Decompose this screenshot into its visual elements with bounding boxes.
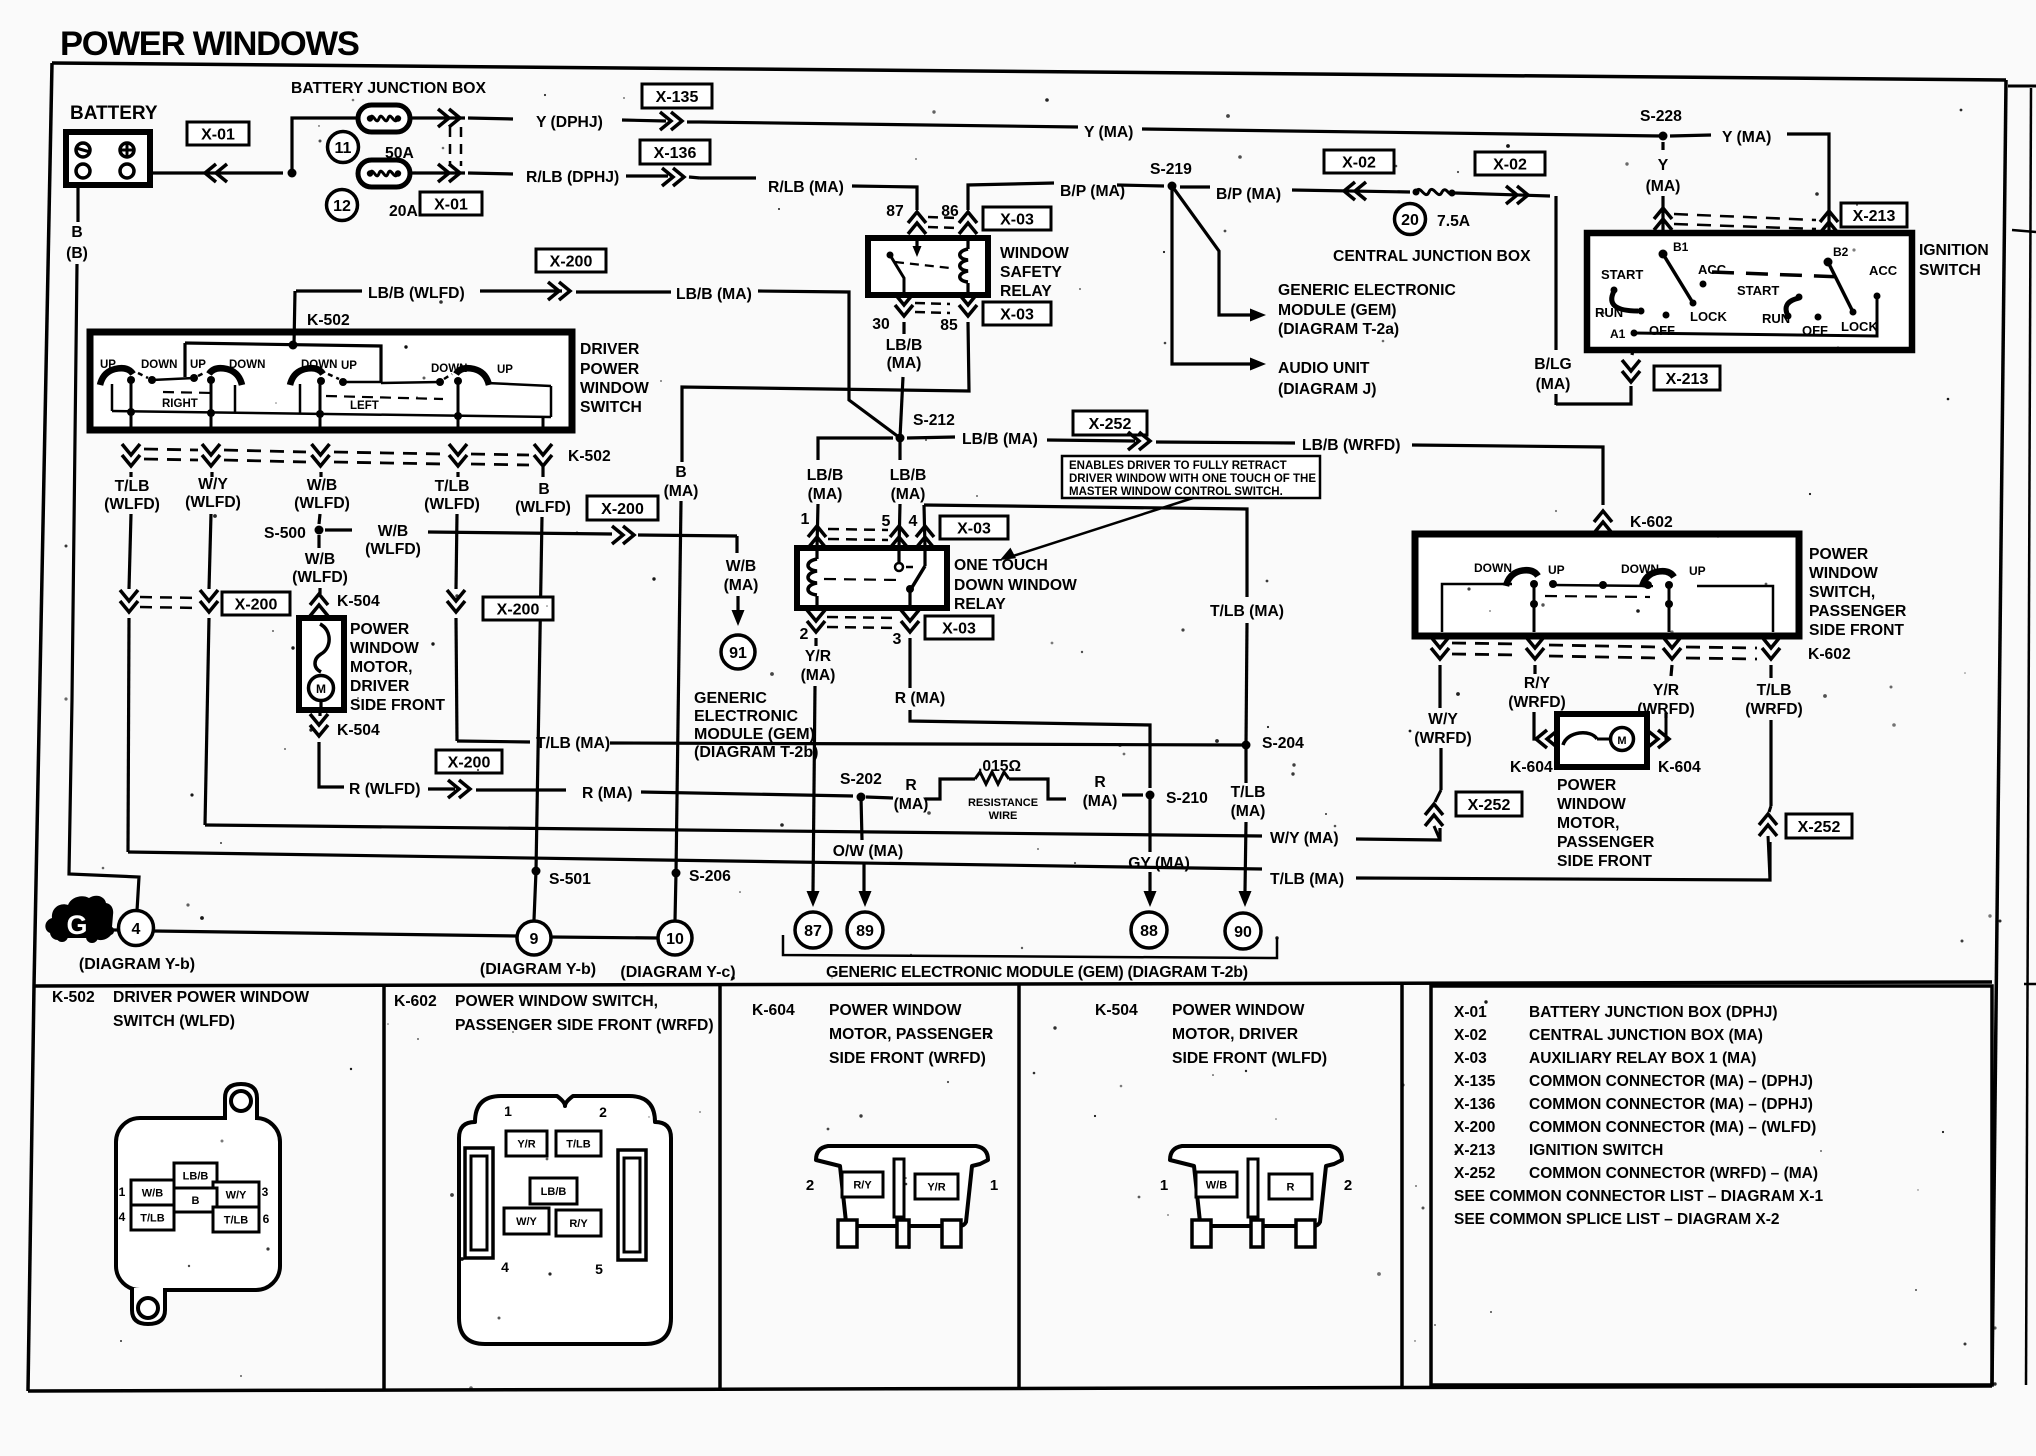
svg-text:UP: UP (341, 360, 357, 372)
svg-text:(WLFD): (WLFD) (424, 496, 480, 513)
splice S-501 (532, 867, 541, 876)
wire pin3 R down and over to S-210 (908, 638, 911, 688)
svg-text:LB/B (WLFD): LB/B (WLFD) (368, 285, 465, 302)
svg-text:2: 2 (800, 626, 809, 643)
svg-text:(MA): (MA) (887, 355, 922, 372)
svg-text:K-502: K-502 (568, 448, 611, 465)
svg-text:2: 2 (1344, 1177, 1352, 1194)
fuse 12 20A (358, 160, 410, 187)
svg-text:87: 87 (804, 923, 822, 940)
svg-text:(MA): (MA) (724, 577, 759, 594)
K-604 right chevron (1647, 730, 1669, 748)
svg-text:B1: B1 (1673, 240, 1689, 254)
wire S-212 branch to relay pin1 (818, 438, 893, 460)
svg-text:1: 1 (801, 511, 810, 528)
svg-text:M: M (316, 682, 326, 696)
connector label X-252 right (1786, 814, 1852, 838)
splice S-219 (1168, 182, 1177, 191)
svg-text:5: 5 (882, 513, 891, 530)
wire G to circle 4 (105, 928, 119, 931)
svg-text:X-200: X-200 (601, 501, 644, 518)
resistance wire .015 ohm (925, 779, 975, 799)
wire pin30 down to S-212 (902, 322, 905, 334)
svg-text:K-502: K-502 (52, 989, 95, 1006)
connector label X-252 top (1073, 411, 1147, 435)
K-502 pin B (174, 1188, 217, 1212)
wire LB/B X-252 arrow (1047, 440, 1135, 441)
K-502 pin T/LB left (131, 1205, 174, 1230)
svg-text:B2: B2 (1833, 245, 1849, 259)
svg-text:K-604: K-604 (1510, 759, 1553, 776)
svg-text:POWER WINDOW SWITCH,: POWER WINDOW SWITCH, (455, 993, 658, 1010)
svg-text:WINDOW: WINDOW (1557, 796, 1626, 813)
wire col1 T/LB down (129, 472, 132, 477)
connector label X-213 upper (1841, 203, 1907, 227)
wire S-228 to right (1670, 135, 1711, 136)
wire pin1 into relay (817, 504, 818, 548)
svg-text:T/LB: T/LB (435, 478, 470, 495)
svg-text:3: 3 (262, 1185, 269, 1199)
svg-text:WIRE: WIRE (989, 810, 1018, 822)
GEM terminal circle 4 (119, 911, 154, 946)
fuse 20 circle label (1395, 204, 1426, 235)
svg-text:X-01: X-01 (434, 196, 468, 213)
svg-text:K-602: K-602 (1808, 646, 1851, 663)
col1 col2 connector chevrons X-200 (120, 590, 138, 612)
connector label X-252 left (1456, 792, 1522, 816)
svg-text:MOTOR,: MOTOR, (1557, 815, 1619, 832)
B2 connector chevron (1820, 211, 1838, 233)
svg-text:R (WLFD): R (WLFD) (349, 781, 420, 798)
ignition bank1 A1 (1631, 330, 1638, 337)
battery (66, 132, 150, 185)
svg-text:X-02: X-02 (1493, 156, 1527, 173)
svg-text:SIDE FRONT: SIDE FRONT (1557, 853, 1652, 870)
svg-text:X-03: X-03 (1000, 211, 1034, 228)
svg-text:X-252: X-252 (1089, 416, 1132, 433)
svg-text:12: 12 (333, 198, 351, 215)
svg-text:START: START (1737, 283, 1779, 298)
fuse 12 circle label (327, 190, 358, 221)
svg-text:PASSENGER: PASSENGER (1809, 603, 1906, 620)
svg-text:COMMON CONNECTOR (MA) – (WLF: COMMON CONNECTOR (MA) – (WLFD) (1529, 1119, 1816, 1136)
svg-text:UP: UP (497, 364, 513, 376)
K-502 connector dashes (144, 449, 198, 450)
svg-text:(WLFD): (WLFD) (292, 569, 348, 586)
svg-text:B/P (MA): B/P (MA) (1060, 183, 1125, 200)
wire B/LG vertical lower stub (1554, 394, 1557, 405)
svg-text:GENERIC ELECTRONIC MODULE (GEM: GENERIC ELECTRONIC MODULE (GEM) (DIAGRAM… (826, 964, 1248, 981)
connector label X-200 for W/B wire (587, 496, 658, 520)
svg-text:BATTERY JUNCTION BOX: BATTERY JUNCTION BOX (291, 80, 486, 97)
splice S-500 (315, 526, 324, 535)
svg-text:MODULE (GEM): MODULE (GEM) (1278, 302, 1397, 319)
wire R (MA) to S-202 (641, 792, 853, 796)
wire T/LB down to GEM 90 (1244, 745, 1247, 783)
GEM terminal circle 87 (795, 912, 831, 948)
svg-text:87: 87 (886, 203, 904, 220)
pins 2 3 connector chevrons (807, 610, 825, 632)
svg-text:(DIAGRAM T-2b): (DIAGRAM T-2b) (694, 744, 818, 761)
ignition bank middle dashed (1712, 272, 1844, 277)
svg-text:M: M (1617, 735, 1626, 747)
connector boundary dashes X-01 (449, 127, 452, 166)
svg-text:R/Y: R/Y (569, 1218, 588, 1230)
wire into S-210 (1122, 793, 1143, 796)
wire T/LB (MA) bus2 (128, 852, 1262, 869)
svg-text:X-213: X-213 (1853, 208, 1896, 225)
svg-text:3: 3 (893, 631, 902, 648)
wire LB/B X-200 arrow (480, 289, 562, 292)
K-502 switch unit 3 (290, 368, 323, 385)
svg-text:85: 85 (940, 317, 958, 334)
svg-text:CENTRAL JUNCTION BOX (MA): CENTRAL JUNCTION BOX (MA) (1529, 1027, 1763, 1044)
ignition B2 pin (1824, 258, 1833, 267)
connector label X-200 col4 (483, 597, 553, 620)
wire S-206 to GEM circle 10 (675, 873, 676, 921)
svg-text:88: 88 (1140, 923, 1158, 940)
svg-text:Y/R: Y/R (517, 1138, 535, 1150)
svg-text:(MA): (MA) (1536, 376, 1571, 393)
GEM terminal circle 10 (658, 921, 692, 955)
svg-text:(DIAGRAM Y-b): (DIAGRAM Y-b) (79, 956, 195, 973)
svg-text:B: B (192, 1195, 200, 1207)
svg-text:K-504: K-504 (1095, 1002, 1138, 1019)
svg-text:K-504: K-504 (337, 593, 380, 610)
svg-text:Y (DPHJ): Y (DPHJ) (536, 114, 603, 131)
svg-text:ELECTRONIC: ELECTRONIC (694, 708, 798, 725)
GEM terminal circle 9 (517, 921, 551, 955)
wire battery negative down to ground (76, 185, 79, 222)
K-604 motor connector drawing (816, 1146, 988, 1226)
K-504 motor connector drawing (1170, 1146, 1342, 1226)
note pointer arrow (1150, 498, 1189, 520)
K-602 pin T/LB (556, 1131, 601, 1156)
svg-text:X-03: X-03 (942, 620, 976, 637)
svg-text:(MA): (MA) (894, 796, 929, 813)
K-602 connector drawing outline (459, 1096, 671, 1344)
splice S-206 (672, 869, 681, 878)
svg-text:G: G (66, 910, 87, 940)
svg-text:1: 1 (504, 1103, 512, 1119)
wire B (MA) down to S-206 (676, 501, 681, 873)
svg-text:W/Y (MA): W/Y (MA) (1270, 830, 1339, 847)
wire col2 W/Y down (210, 472, 213, 477)
wire Y to X-135 (622, 120, 666, 121)
svg-text:W/B: W/B (142, 1187, 163, 1199)
svg-text:S-228: S-228 (1640, 108, 1682, 125)
K-602 pin LB/B (530, 1178, 577, 1204)
svg-text:R/LB (MA): R/LB (MA) (768, 179, 844, 196)
wire W/B arrow into GEM 91 (736, 596, 739, 610)
svg-text:(WLFD): (WLFD) (365, 541, 421, 558)
svg-text:SWITCH: SWITCH (580, 399, 642, 416)
relay contact arm (915, 238, 918, 252)
svg-text:S-210: S-210 (1166, 790, 1208, 807)
wire T/LB bus to S-204 (610, 743, 1246, 745)
svg-text:T/LB: T/LB (566, 1138, 590, 1150)
svg-text:S-206: S-206 (689, 868, 731, 885)
connector label X-136 (640, 140, 710, 164)
svg-text:WINDOW: WINDOW (1000, 245, 1069, 262)
svg-text:GENERIC: GENERIC (694, 690, 767, 707)
svg-text:OFF: OFF (1802, 323, 1828, 338)
wire col5 B down (541, 467, 544, 477)
wire S-219 down to audio unit arrow (1172, 186, 1251, 364)
svg-text:IGNITION SWITCH: IGNITION SWITCH (1529, 1142, 1663, 1159)
svg-text:9: 9 (530, 931, 539, 948)
K-502 inner bottom rail (112, 411, 551, 417)
svg-text:(WRFD): (WRFD) (1508, 694, 1566, 711)
wire S-212 down to relay pin5 (898, 438, 901, 460)
wire T/LB down to S-204 (1246, 623, 1247, 745)
svg-text:SWITCH: SWITCH (1919, 262, 1981, 279)
wire Y (MA) into ignition B1 (1661, 142, 1664, 150)
connector dashes to X-213 (1674, 214, 1816, 220)
svg-text:SAFETY: SAFETY (1000, 264, 1062, 281)
svg-text:Y: Y (1658, 157, 1669, 174)
svg-text:LB/B: LB/B (541, 1186, 567, 1198)
svg-text:UP: UP (190, 359, 206, 371)
wire col4 down to T/LB MA wire (456, 618, 457, 741)
fuse 11 50A (358, 105, 410, 132)
K-502 rail junction dots (127, 408, 135, 416)
svg-text:W/Y: W/Y (1428, 711, 1458, 728)
svg-text:X-200: X-200 (550, 253, 593, 270)
splice S-210 (1146, 791, 1155, 800)
motor curve and M circle (315, 624, 329, 672)
wire S-219 diagonal to GEM arrow (1172, 186, 1251, 315)
svg-text:B/P (MA): B/P (MA) (1216, 186, 1281, 203)
legend bottom border (28, 1386, 1992, 1391)
ground symbol G (45, 896, 114, 940)
svg-text:K-604: K-604 (1658, 759, 1701, 776)
svg-text:(DIAGRAM T-2a): (DIAGRAM T-2a) (1278, 321, 1399, 338)
K-502 inner feed line (185, 343, 381, 382)
svg-text:.015Ω: .015Ω (978, 758, 1021, 775)
svg-text:LB/B: LB/B (890, 467, 927, 484)
window safety relay U1 (868, 238, 988, 295)
wire B/LG down from junction box (1554, 196, 1557, 350)
ignition internal wire A1 to ACC2 (1634, 298, 1877, 336)
splice S-228 (1659, 132, 1668, 141)
svg-text:S-212: S-212 (913, 412, 955, 429)
K-502 pin T/LB right (213, 1207, 259, 1232)
svg-text:(WLFD): (WLFD) (185, 494, 241, 511)
svg-text:PASSENGER SIDE FRONT (WRFD): PASSENGER SIDE FRONT (WRFD) (455, 1017, 714, 1034)
wire R (WLFD) from motor (319, 742, 344, 787)
connector label X-01 lower (420, 192, 482, 215)
connector dashes pins 1-5 (828, 529, 888, 530)
main diagram border frame (52, 63, 2006, 80)
svg-text:5: 5 (595, 1261, 603, 1277)
svg-text:(DIAGRAM Y-c): (DIAGRAM Y-c) (620, 964, 735, 981)
wire S-501 to GEM circle 9 (534, 871, 536, 920)
svg-text:(MA): (MA) (801, 667, 836, 684)
wire W/Y column down (1438, 665, 1441, 708)
K-602 connector chevrons (1431, 637, 1449, 659)
svg-text:6: 6 (263, 1212, 270, 1226)
svg-text:UP: UP (1548, 563, 1565, 577)
svg-text:POWER: POWER (350, 621, 409, 638)
driver power window switch K-502 box (90, 332, 572, 430)
wire fuse20 out through X-02 (1455, 193, 1550, 196)
wire S-212 right segment (907, 437, 955, 438)
svg-text:B/LG: B/LG (1534, 356, 1571, 373)
connector label X-135 (642, 84, 712, 108)
svg-text:4: 4 (909, 513, 918, 530)
svg-text:K-602: K-602 (394, 993, 437, 1010)
K-602 pin W/Y (504, 1208, 549, 1234)
wire pin5 into relay (899, 504, 900, 548)
svg-text:7.5A: 7.5A (1437, 213, 1470, 230)
svg-text:BATTERY JUNCTION BOX (DPHJ): BATTERY JUNCTION BOX (DPHJ) (1529, 1004, 1778, 1021)
svg-text:X-02: X-02 (1342, 154, 1376, 171)
wire battery to junction (150, 171, 283, 174)
svg-text:(WLFD): (WLFD) (104, 496, 160, 513)
K-602 inner common line (1553, 585, 1653, 586)
connector label X-213 lower (1654, 366, 1720, 390)
splice S-204 (1242, 741, 1251, 750)
svg-text:X-03: X-03 (1454, 1050, 1487, 1067)
svg-text:PASSENGER: PASSENGER (1557, 834, 1654, 851)
svg-text:T/LB: T/LB (115, 478, 150, 495)
legend box5 border (1431, 986, 1992, 1385)
svg-text:W/Y: W/Y (226, 1189, 247, 1201)
svg-text:W/B: W/B (1206, 1179, 1227, 1191)
svg-text:T/LB: T/LB (1231, 784, 1266, 801)
K-602 inner dash link (1545, 596, 1650, 597)
legend section top border (34, 982, 1992, 986)
svg-text:Y (MA): Y (MA) (1722, 129, 1771, 146)
svg-text:R (MA): R (MA) (582, 785, 633, 802)
svg-text:(MA): (MA) (1646, 178, 1681, 195)
svg-text:LOCK: LOCK (1690, 309, 1727, 324)
K-602 switch unit 1 (1506, 570, 1538, 586)
ignition B1 pin (1659, 250, 1668, 259)
svg-text:LB/B (MA): LB/B (MA) (962, 431, 1038, 448)
svg-text:S-501: S-501 (549, 871, 591, 888)
GEM bracket (783, 935, 1277, 958)
GEM terminal circle 88 (1131, 912, 1167, 948)
wire R/LB to relay pin 87 (852, 186, 917, 210)
svg-text:SIDE FRONT: SIDE FRONT (1809, 622, 1904, 639)
svg-text:X-252: X-252 (1454, 1165, 1495, 1182)
svg-text:LB/B (WRFD): LB/B (WRFD) (1302, 437, 1400, 454)
svg-text:30: 30 (872, 316, 890, 333)
svg-text:1: 1 (119, 1185, 126, 1199)
svg-text:Y/R: Y/R (805, 648, 831, 665)
svg-text:W/Y: W/Y (198, 476, 228, 493)
svg-text:W/B: W/B (305, 551, 336, 568)
svg-text:RELAY: RELAY (954, 596, 1006, 613)
wire R/LB to X-136 (626, 174, 668, 177)
svg-text:(MA): (MA) (891, 486, 926, 503)
one touch relay switch (897, 548, 900, 563)
svg-text:LB/B: LB/B (183, 1170, 209, 1182)
svg-text:(WRFD): (WRFD) (1745, 701, 1803, 718)
svg-text:R/LB (DPHJ): R/LB (DPHJ) (526, 169, 619, 186)
svg-text:ACC: ACC (1698, 262, 1727, 277)
svg-text:4: 4 (132, 921, 141, 938)
svg-text:DRIVER: DRIVER (350, 678, 409, 695)
svg-text:T/LB (MA): T/LB (MA) (1270, 871, 1344, 888)
svg-text:DRIVER WINDOW WITH ONE TOUCH O: DRIVER WINDOW WITH ONE TOUCH OF THE (1069, 473, 1316, 485)
connector label X-02 right (1475, 152, 1545, 175)
col4 connector chevron X-200 (447, 590, 465, 612)
svg-text:B: B (538, 481, 549, 498)
svg-text:K-502: K-502 (307, 312, 350, 329)
svg-text:LEFT: LEFT (350, 400, 379, 412)
relay coil (966, 238, 969, 249)
svg-text:IGNITION: IGNITION (1919, 242, 1989, 259)
svg-text:DOWN: DOWN (1474, 561, 1512, 575)
svg-text:(MA): (MA) (808, 486, 843, 503)
K-502 pivot output wires (130, 382, 133, 418)
wire W/Y bus to K-602 column (1356, 828, 1440, 840)
svg-text:WINDOW: WINDOW (1809, 565, 1878, 582)
splice S-202 (857, 793, 866, 802)
svg-text:R/Y: R/Y (853, 1179, 872, 1191)
svg-text:SWITCH (WLFD): SWITCH (WLFD) (113, 1013, 235, 1030)
svg-text:20: 20 (1401, 212, 1419, 229)
svg-text:B: B (675, 464, 686, 481)
svg-text:DOWN: DOWN (141, 359, 177, 371)
svg-text:GY (MA): GY (MA) (1128, 855, 1190, 872)
GEM terminal circle 90 (1225, 913, 1261, 949)
wire T/LB feed into pin4 (924, 505, 925, 548)
svg-text:RELAY: RELAY (1000, 283, 1052, 300)
svg-text:X-03: X-03 (957, 520, 991, 537)
connector label X-200 cols 1-2 (222, 592, 290, 615)
svg-text:(WLFD): (WLFD) (515, 499, 571, 516)
wire col1 down to T/LB bus (128, 618, 129, 852)
svg-text:K-504: K-504 (337, 722, 380, 739)
svg-text:T/LB: T/LB (224, 1214, 248, 1226)
K-502 inner dash links (163, 392, 214, 393)
svg-text:(DIAGRAM Y-b): (DIAGRAM Y-b) (480, 961, 596, 978)
svg-text:SEE COMMON SPLICE LIST – DIA: SEE COMMON SPLICE LIST – DIAGRAM X-2 (1454, 1211, 1780, 1228)
wire LB/B (WLFD) from K-502 (296, 289, 362, 292)
wire W/B (WLFD) to X-200 arrow (428, 532, 612, 534)
svg-text:Y/R: Y/R (1653, 682, 1679, 699)
svg-text:B: B (71, 224, 82, 241)
svg-text:(WLFD): (WLFD) (294, 495, 350, 512)
connector label X-03 one touch upper (940, 516, 1008, 539)
wire W/B (MA) down to GEM 91 (735, 536, 738, 553)
legend divider 1 (382, 984, 386, 1389)
svg-text:ACC: ACC (1869, 263, 1898, 278)
connector label X-200 top (536, 249, 606, 272)
one touch relay coil dash link (824, 579, 899, 580)
wire R X-200 arrow (428, 787, 455, 790)
svg-text:T/LB (MA): T/LB (MA) (1210, 603, 1284, 620)
legend left border (28, 986, 34, 1391)
svg-text:W/Y: W/Y (516, 1216, 537, 1228)
svg-text:(MA): (MA) (664, 483, 699, 500)
K-502 switch unit 4 (456, 368, 489, 385)
svg-text:BATTERY: BATTERY (70, 103, 158, 124)
K-602 switch unit 2 (1642, 571, 1674, 587)
wire pin85 to B (MA) branch (682, 322, 969, 462)
svg-text:(MA): (MA) (1231, 803, 1266, 820)
svg-text:11: 11 (335, 140, 352, 157)
svg-text:X-01: X-01 (1454, 1004, 1487, 1021)
svg-text:(MA): (MA) (1083, 793, 1118, 810)
wire Y (MA) to S-228 (1142, 129, 1663, 136)
svg-text:POWER: POWER (580, 361, 639, 378)
connector label X-03 lower (983, 302, 1051, 325)
